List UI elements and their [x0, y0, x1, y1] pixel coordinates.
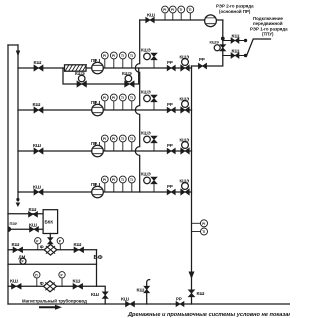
valve КШ filterA left	[12, 242, 23, 253]
valve vent КШЭ row1	[141, 48, 157, 69]
valve КШ filterA right	[74, 242, 84, 253]
svg-text:КШ: КШ	[10, 279, 18, 285]
node header inner end	[16, 198, 19, 201]
svg-text:PI: PI	[202, 222, 205, 226]
svg-text:КШЭ: КШЭ	[210, 40, 219, 45]
svg-text:РР: РР	[167, 143, 173, 148]
wire metering row 3	[18, 150, 192, 152]
svg-text:КШЭ: КШЭ	[141, 48, 151, 53]
wire filter outlet	[97, 250, 106, 304]
svg-text:PI: PI	[112, 54, 115, 58]
valve КШ collector outlet	[188, 290, 204, 297]
arrow collector flow down	[189, 272, 195, 280]
wire main pipeline	[8, 303, 290, 305]
svg-text:Ф: Ф	[40, 244, 44, 249]
svg-text:КШ: КШ	[91, 292, 99, 298]
valve КШ12	[223, 49, 246, 59]
svg-text:КШЭ: КШЭ	[141, 172, 151, 177]
valve КШ filter outlet	[91, 292, 108, 299]
node КШ11 flange	[244, 39, 247, 42]
wire filter row A	[8, 249, 97, 251]
svg-text:TI: TI	[121, 54, 124, 58]
valve КШ main line	[121, 297, 135, 307]
wire metering row 2	[18, 109, 192, 111]
svg-text:ПЗУ: ПЗУ	[10, 221, 18, 226]
instrument collector TI	[192, 228, 208, 235]
wire collector vertical	[191, 66, 193, 304]
meter ПР row1	[91, 58, 103, 74]
svg-text:КШ: КШ	[197, 291, 205, 297]
svg-text:PI: PI	[103, 178, 106, 182]
svg-text:КШ: КШ	[121, 297, 129, 303]
label РЭР 2-го разряда	[216, 4, 254, 15]
svg-text:РР: РР	[167, 184, 173, 189]
valve КШ top line	[146, 13, 155, 23]
valve vent КШЭ row2	[141, 90, 157, 111]
valve КШ filterB right	[73, 279, 83, 290]
svg-text:КШ: КШ	[137, 287, 145, 293]
wire БКК lower line	[10, 228, 43, 230]
meter reference ПР	[205, 15, 217, 27]
svg-text:TI: TI	[121, 96, 124, 100]
svg-text:TI: TI	[121, 137, 124, 141]
wire filter middle line	[8, 263, 97, 265]
wire hose to ТПУ	[246, 39, 270, 57]
valve КШ2 row2	[33, 102, 44, 113]
svg-text:РР: РР	[176, 297, 182, 302]
valve sample Х	[48, 238, 53, 244]
valve motor КШЭ row3 end	[180, 138, 190, 155]
valve КШ4 row4	[33, 185, 43, 196]
instruments top line	[162, 6, 194, 20]
valve КШ11	[223, 34, 246, 44]
valve motor КШЭ bypass left	[75, 71, 86, 87]
label Подключение ТПУ	[250, 16, 288, 37]
valve motor КШЭ bypass right	[122, 71, 134, 87]
instruments row4	[101, 176, 135, 192]
filter Ф B	[40, 281, 57, 292]
instruments row3	[101, 135, 135, 151]
arrow main flow	[39, 305, 62, 310]
valve РР row4	[167, 184, 175, 195]
svg-text:РЭР 2-го разряда: РЭР 2-го разряда	[216, 4, 254, 9]
svg-text:TI: TI	[179, 8, 182, 12]
wire metering row 1	[18, 67, 192, 69]
valve motor КШЭ row1 end	[180, 55, 190, 72]
gauge filterB left	[34, 272, 40, 287]
svg-text:БКК: БКК	[45, 220, 54, 225]
gauge filterA left	[35, 238, 41, 250]
svg-text:TI: TI	[189, 8, 192, 12]
svg-text:TI: TI	[130, 54, 133, 58]
svg-text:PI: PI	[112, 137, 115, 141]
instruments row1	[101, 52, 135, 68]
block БКК	[43, 210, 58, 234]
valve КШ drain stub	[137, 286, 150, 293]
filter Ф A	[40, 244, 57, 255]
valve vent КШЭ row4	[141, 172, 157, 193]
valve КШ filterB left	[10, 279, 21, 290]
wire drain stub	[147, 280, 150, 304]
valve РР proving return	[198, 57, 206, 69]
wire header top cap	[8, 44, 18, 46]
wire filter row B	[8, 285, 97, 287]
svg-text:(ТПУ): (ТПУ)	[262, 32, 274, 37]
svg-text:Ф: Ф	[40, 281, 44, 286]
wire metering row 4	[18, 191, 192, 193]
arrow header inner end	[16, 203, 21, 208]
svg-text:КШЭ: КШЭ	[141, 90, 151, 95]
valve КШ3 row3	[33, 143, 43, 154]
instruments row2	[101, 94, 135, 110]
svg-text:PI: PI	[112, 178, 115, 182]
svg-text:PI: PI	[103, 96, 106, 100]
gauge ДМ	[19, 254, 27, 264]
meter ПР row4	[91, 182, 103, 198]
svg-text:КШЭ: КШЭ	[141, 131, 151, 136]
svg-text:БФ: БФ	[94, 255, 103, 261]
valve motor КШЭ proving	[210, 40, 226, 52]
svg-text:PI: PI	[171, 8, 174, 12]
svg-text:PI: PI	[103, 137, 106, 141]
meter ПР row2	[91, 100, 103, 116]
svg-text:РР: РР	[167, 60, 173, 65]
gauge filterB right	[59, 272, 65, 287]
valve motor КШЭ row4 end	[180, 179, 190, 196]
svg-text:РР: РР	[167, 102, 173, 107]
wire header left vertical	[7, 45, 9, 304]
svg-text:РР: РР	[199, 57, 205, 62]
svg-text:PI: PI	[163, 8, 166, 12]
wire БКК drop to filter	[49, 234, 51, 246]
svg-text:Дренажные и промывочные систем: Дренажные и промывочные системы условно …	[127, 312, 290, 318]
meter ПР row3	[91, 141, 103, 157]
valve КШ БКК upper	[29, 207, 38, 217]
strainer row1	[65, 65, 87, 71]
valve РР row3	[167, 143, 175, 154]
valve РР main line	[176, 297, 184, 307]
device ПЗУ	[8, 221, 17, 232]
arrow flow-in at header top	[16, 51, 20, 57]
svg-text:TI: TI	[130, 137, 133, 141]
node proving tee	[221, 37, 225, 41]
svg-text:TI: TI	[130, 96, 133, 100]
instrument collector PI	[192, 220, 208, 227]
wire header inner vertical	[17, 45, 19, 201]
wire top proving line	[140, 19, 223, 21]
svg-text:PI: PI	[112, 96, 115, 100]
valve vent КШЭ row3	[141, 131, 157, 152]
svg-text:PI: PI	[103, 54, 106, 58]
wire proving right drop	[192, 20, 223, 66]
node КШ12 flange	[244, 54, 247, 57]
gauge filterA right	[57, 238, 63, 250]
svg-text:(основной ПР): (основной ПР)	[219, 9, 251, 14]
valve РР row1	[167, 60, 175, 71]
wire calibration riser with hops	[135, 20, 139, 192]
svg-text:КШ: КШ	[12, 242, 20, 248]
valve РР row2	[167, 102, 175, 113]
svg-text:TI: TI	[130, 178, 133, 182]
svg-text:TI: TI	[202, 230, 205, 234]
valve КШ1 row1	[34, 60, 44, 71]
wire bypass row1	[63, 68, 139, 84]
svg-text:TI: TI	[121, 178, 124, 182]
valve КШ БКК lower	[29, 223, 39, 233]
svg-text:Магистральный трубопровод: Магистральный трубопровод	[22, 299, 87, 304]
wire БКК upper line	[8, 213, 43, 215]
valve motor КШЭ row2 end	[180, 97, 190, 114]
